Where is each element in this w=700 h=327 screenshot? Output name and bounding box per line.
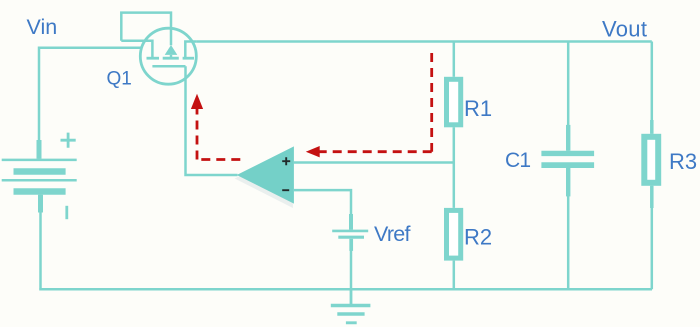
wire top rail corner down to R3 [651,42,654,134]
battery V1 top stub [37,140,42,159]
resistor R3 bottom stub [650,186,654,208]
wire battery bottom to ground rail [39,195,42,289]
battery V1 plate 4 (thick short) [14,188,66,195]
battery Vref top plate (thin long) [332,230,368,233]
feedback dashed path A vertical (from Vout rail) [430,53,433,152]
capacitor C1 bottom stub [566,168,570,196]
wire Vref to ground rail [350,250,353,289]
capacitor C1 top stub [566,125,570,151]
svg-text:R2: R2 [464,225,492,250]
battery V1 bottom stub [38,195,43,213]
Q1 body arrow stub [170,55,173,58]
capacitor C1 top plate [541,151,594,156]
op-amp plus input sign [282,157,290,165]
wire R3 to ground rail [651,186,654,289]
wire R1 to R2 [453,127,456,208]
wire bottom ground rail [39,288,652,291]
gate-drive arrowhead B (points up) [191,94,203,109]
gate-drive dashed path B horizontal [197,158,240,161]
battery V1 plus sign [61,133,76,148]
battery Vref bottom stub [349,239,353,251]
wire top rail to R1 [453,42,456,77]
battery Vref top stub [349,214,353,230]
wire op-amp minus input to Vref [294,190,351,230]
svg-text:Q1: Q1 [107,69,132,90]
resistor R3 top stub [650,120,654,134]
Q1 right terminal bracket [185,42,196,59]
ground bar 2 [337,312,364,315]
svg-text:Vout: Vout [602,16,647,41]
feedback dashed path A horizontal into op-amp plus input [320,150,432,153]
wire gate to op-amp output [186,66,238,175]
op-amp U1 triangle [237,146,294,203]
svg-text:R3: R3 [669,149,697,174]
Q1 left terminal bracket [121,41,152,58]
resistor R1 [447,79,461,125]
battery V1 plate 3 (thin long) [2,179,77,182]
ground bar 1 [331,304,371,308]
Q1 channel segment left [147,57,160,60]
battery V1 plate 2 (thick short) [14,168,66,175]
svg-text:Vref: Vref [374,222,411,246]
wire C1 to ground rail [567,168,570,289]
wire Vin rail (battery top to Q1 left terminal) [39,48,141,159]
resistor R3 [644,137,658,183]
battery V1 minus sign [65,206,68,219]
ground bar 3 [346,321,357,324]
feedback arrowhead A (points left) [306,146,320,157]
wire R2 to ground rail [453,261,456,290]
svg-text:Vin: Vin [27,15,58,39]
battery Vref bottom plate (thick short) [338,236,364,239]
battery V1 plate 1 (thin long) [2,159,77,162]
gate-drive dashed path B vertical [196,109,199,160]
Q1 channel segment right [183,57,194,60]
wire op-amp plus input to R1/R2 node [294,161,454,164]
op-amp minus input sign [282,189,289,191]
resistor R2 [447,210,461,258]
Q1 channel segment middle [163,57,179,60]
svg-text:R1: R1 [464,96,492,121]
Q1 gate bar [152,65,185,68]
Q1 body arrow [165,45,178,55]
ground stub [350,289,353,304]
op-amp U1 shadow [235,150,293,209]
svg-text:C1: C1 [505,149,530,172]
Q1 gate-body loop rectangle [121,13,171,46]
capacitor C1 bottom plate [541,162,594,168]
wire top rail to C1 [567,42,570,151]
transistor Q1 body circle [140,28,196,84]
wire top rail Q1 to Vout corner [196,40,651,43]
